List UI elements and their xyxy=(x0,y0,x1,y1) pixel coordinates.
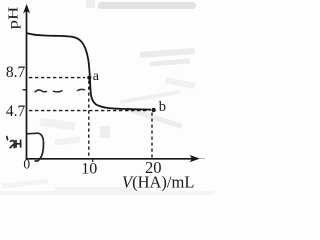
svg-text:8.7: 8.7 xyxy=(6,64,26,81)
svg-text:b: b xyxy=(159,99,166,115)
svg-text:0: 0 xyxy=(23,156,30,171)
svg-text:pH: pH xyxy=(5,6,21,29)
svg-text:10: 10 xyxy=(81,161,97,178)
svg-text:4.7: 4.7 xyxy=(6,103,26,120)
svg-text:a: a xyxy=(93,69,100,84)
svg-text:V(HA)/mL: V(HA)/mL xyxy=(122,172,194,191)
